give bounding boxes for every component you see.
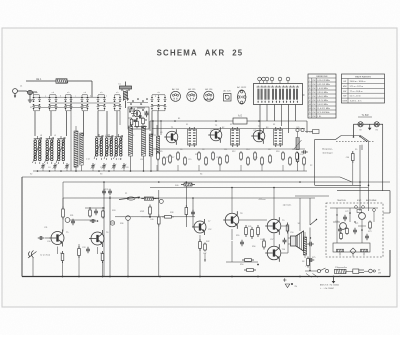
svg-text:51 m - 13 m: 51 m - 13 m: [350, 96, 361, 98]
svg-text:ANTENNE: ANTENNE: [366, 199, 377, 202]
svg-text:S1: S1: [30, 107, 32, 109]
svg-text:P2: P2: [310, 165, 312, 167]
svg-text:KW: KW: [313, 80, 316, 82]
svg-text:KW: KW: [313, 100, 316, 102]
svg-text:R42: R42: [206, 241, 209, 243]
svg-text:AKR 25 II > Nr 254642: AKR 25 II > Nr 254642: [320, 284, 339, 287]
svg-text:2 Mignonzellen: 2 Mignonzellen: [335, 267, 347, 269]
svg-text:5,9-6,3 MHz: 5,9-6,3 MHz: [317, 96, 328, 98]
svg-text:L 14: L 14: [86, 159, 90, 161]
svg-text:d: d: [90, 96, 91, 98]
svg-text:AC 125: AC 125: [223, 90, 231, 93]
svg-text:übertrager: übertrager: [322, 152, 332, 155]
svg-text:S2: S2: [298, 223, 300, 225]
svg-text:S5: S5: [355, 149, 357, 151]
svg-text:e: e: [106, 96, 107, 98]
svg-text:S8: S8: [302, 261, 304, 263]
svg-text:R50: R50: [240, 264, 243, 266]
svg-text:a b: a b: [84, 92, 86, 94]
svg-text:KW: KW: [313, 84, 316, 86]
svg-text:S3: S3: [100, 174, 102, 176]
svg-text:S4: S4: [200, 174, 202, 176]
svg-text:TL 5W: TL 5W: [362, 114, 370, 117]
svg-text:KW: KW: [313, 108, 316, 110]
svg-text:571 m - 187 m: 571 m - 187 m: [350, 86, 363, 88]
svg-text:C47: C47: [203, 253, 206, 255]
svg-text:LW: LW: [343, 81, 346, 83]
svg-text:1/2W: 1/2W: [140, 211, 144, 213]
svg-text:87,5-100 MHz: 87,5-100 MHz: [317, 112, 329, 114]
svg-text:UKW: UKW: [342, 101, 347, 103]
svg-text:C50: C50: [290, 232, 293, 234]
svg-text:o/p trans: o/p trans: [283, 204, 292, 207]
svg-text:c: c: [75, 96, 76, 98]
svg-text:L 10: L 10: [47, 159, 51, 161]
svg-text:C44: C44: [260, 239, 263, 241]
svg-text:R7: R7: [172, 157, 174, 159]
svg-text:L12: L12: [80, 135, 83, 137]
svg-text:KW: KW: [313, 104, 316, 106]
svg-text:6,9-7,4 MHz: 6,9-7,4 MHz: [317, 100, 328, 102]
svg-text:L20: L20: [140, 159, 143, 161]
svg-text:R6: R6: [180, 149, 182, 151]
svg-text:a b: a b: [116, 92, 118, 94]
svg-text:0,15-0,28 MHz: 0,15-0,28 MHz: [317, 80, 330, 82]
svg-text:3,9-5,6 MHz: 3,9-5,6 MHz: [317, 92, 328, 94]
svg-text:R45: R45: [248, 226, 251, 228]
svg-text:R40: R40: [175, 185, 178, 187]
svg-text:AF 125: AF 125: [188, 88, 196, 91]
svg-text:BEREICHE: BEREICHE: [316, 76, 328, 78]
svg-text:SCHEMA AKR 25: SCHEMA AKR 25: [157, 48, 244, 57]
svg-text:F2: F2: [230, 124, 232, 126]
svg-text:C8: C8: [126, 167, 128, 169]
svg-text:C6: C6: [74, 167, 76, 169]
svg-text:C15: C15: [188, 159, 191, 161]
svg-text:KW: KW: [343, 91, 346, 93]
svg-text:P1: P1: [125, 193, 127, 195]
svg-text:C52: C52: [208, 229, 211, 231]
svg-text:R73: R73: [368, 231, 371, 233]
svg-text:R33: R33: [112, 210, 115, 212]
svg-text:B2: B2: [222, 127, 224, 129]
svg-text:WAVE RANGES: WAVE RANGES: [355, 75, 372, 78]
svg-text:3,43 m - 3 m: 3,43 m - 3 m: [350, 101, 362, 103]
svg-text:C96: C96: [346, 157, 349, 159]
svg-text:R62: R62: [100, 253, 103, 255]
svg-text:9,4-9,9 MHz: 9,4-9,9 MHz: [317, 104, 328, 106]
svg-text:b: b: [60, 96, 61, 98]
svg-text:a b: a b: [100, 92, 102, 94]
svg-text:KW: KW: [313, 96, 316, 98]
svg-text:L9: L9: [54, 135, 56, 137]
svg-text:KW: KW: [313, 112, 316, 114]
svg-text:MW: MW: [343, 86, 347, 88]
svg-text:L19: L19: [131, 135, 134, 137]
svg-text:R5: R5: [160, 151, 162, 153]
svg-text:R14: R14: [246, 149, 249, 151]
svg-text:S2: S2: [30, 174, 32, 176]
svg-text:C40: C40: [150, 219, 153, 221]
svg-text:R55: R55: [236, 235, 239, 237]
svg-text:VIII: VIII: [308, 108, 311, 110]
svg-text:1,6-3,8 MHz: 1,6-3,8 MHz: [317, 88, 328, 90]
svg-text:C31: C31: [44, 227, 47, 229]
svg-text:R71: R71: [355, 223, 358, 225]
svg-text:R11: R11: [224, 149, 227, 151]
svg-text:R61: R61: [60, 253, 63, 255]
svg-text:C25: C25: [296, 127, 299, 129]
svg-text:T0: T0: [140, 104, 142, 106]
svg-text:AF 116: AF 116: [172, 88, 180, 91]
svg-text:AE 1: AE 1: [36, 78, 42, 81]
svg-text:11,6-12,1 MHz: 11,6-12,1 MHz: [317, 108, 330, 110]
svg-text:R31: R31: [70, 215, 73, 217]
svg-text:g: g: [155, 96, 156, 98]
svg-text:0,51-1,61 MHz: 0,51-1,61 MHz: [317, 84, 330, 86]
svg-text:a b: a b: [157, 92, 159, 94]
svg-text:TASTEN.: TASTEN.: [337, 199, 346, 202]
svg-text:C72: C72: [345, 211, 348, 213]
svg-text:C12: C12: [166, 157, 169, 159]
svg-text:C57: C57: [270, 239, 273, 241]
svg-text:B3: B3: [266, 127, 268, 129]
svg-text:KW: KW: [313, 116, 316, 118]
svg-text:R18: R18: [276, 151, 279, 153]
svg-text:C26: C26: [300, 154, 303, 156]
svg-text:R9: R9: [195, 154, 197, 156]
svg-text:C33: C33: [82, 247, 85, 249]
svg-text:R56: R56: [252, 246, 255, 248]
svg-text:KW: KW: [313, 92, 316, 94]
svg-text:a b: a b: [35, 92, 37, 94]
svg-text:A.G: A.G: [238, 115, 242, 118]
svg-text:R8: R8: [202, 149, 204, 151]
svg-text:C70: C70: [335, 221, 338, 223]
svg-text:KW: KW: [313, 88, 316, 90]
svg-text:AC 132/2: AC 132/2: [237, 86, 247, 89]
svg-text:SW: SW: [343, 96, 346, 98]
svg-text:C4: C4: [48, 167, 50, 169]
svg-text:C21: C21: [253, 130, 256, 132]
svg-text:C35: C35: [105, 189, 108, 191]
svg-text:AF 126: AF 126: [205, 88, 213, 91]
svg-text:R75: R75: [312, 257, 315, 259]
svg-text:C9: C9: [160, 132, 162, 134]
svg-text:L8: L8: [40, 135, 42, 137]
svg-text:B1: B1: [178, 118, 180, 120]
svg-text:R36: R36: [120, 223, 123, 225]
svg-text:C17: C17: [210, 130, 213, 132]
svg-text:C7: C7: [100, 167, 102, 169]
svg-text:C30: C30: [47, 241, 50, 243]
svg-text:L 18: L 18: [118, 159, 122, 161]
svg-text:Ausgangs-: Ausgangs-: [322, 148, 333, 151]
svg-text:L16: L16: [105, 135, 108, 137]
svg-text:L21: L21: [153, 135, 156, 137]
svg-text:C18: C18: [216, 157, 219, 159]
svg-text:R38: R38: [170, 212, 173, 214]
svg-text:F3: F3: [273, 124, 275, 126]
svg-text:F1: F1: [186, 124, 188, 126]
svg-text:2000 m - 1050 m: 2000 m - 1050 m: [350, 81, 366, 83]
svg-text:77 m - 24,8 m: 77 m - 24,8 m: [350, 91, 363, 93]
svg-text:4-Press: 4-Press: [259, 199, 266, 201]
svg-text:« . . » Nr 254647: « . . » Nr 254647: [320, 287, 334, 290]
svg-text:a b: a b: [67, 92, 69, 94]
svg-text:a b: a b: [52, 92, 54, 94]
svg-text:EXT.: EXT.: [357, 200, 362, 202]
svg-text:R12: R12: [232, 151, 235, 153]
svg-text:Cr or X-tal: Cr or X-tal: [40, 254, 50, 257]
svg-text:R20: R20: [292, 149, 295, 151]
svg-text:C19: C19: [254, 157, 257, 159]
svg-text:R17: R17: [268, 149, 271, 151]
